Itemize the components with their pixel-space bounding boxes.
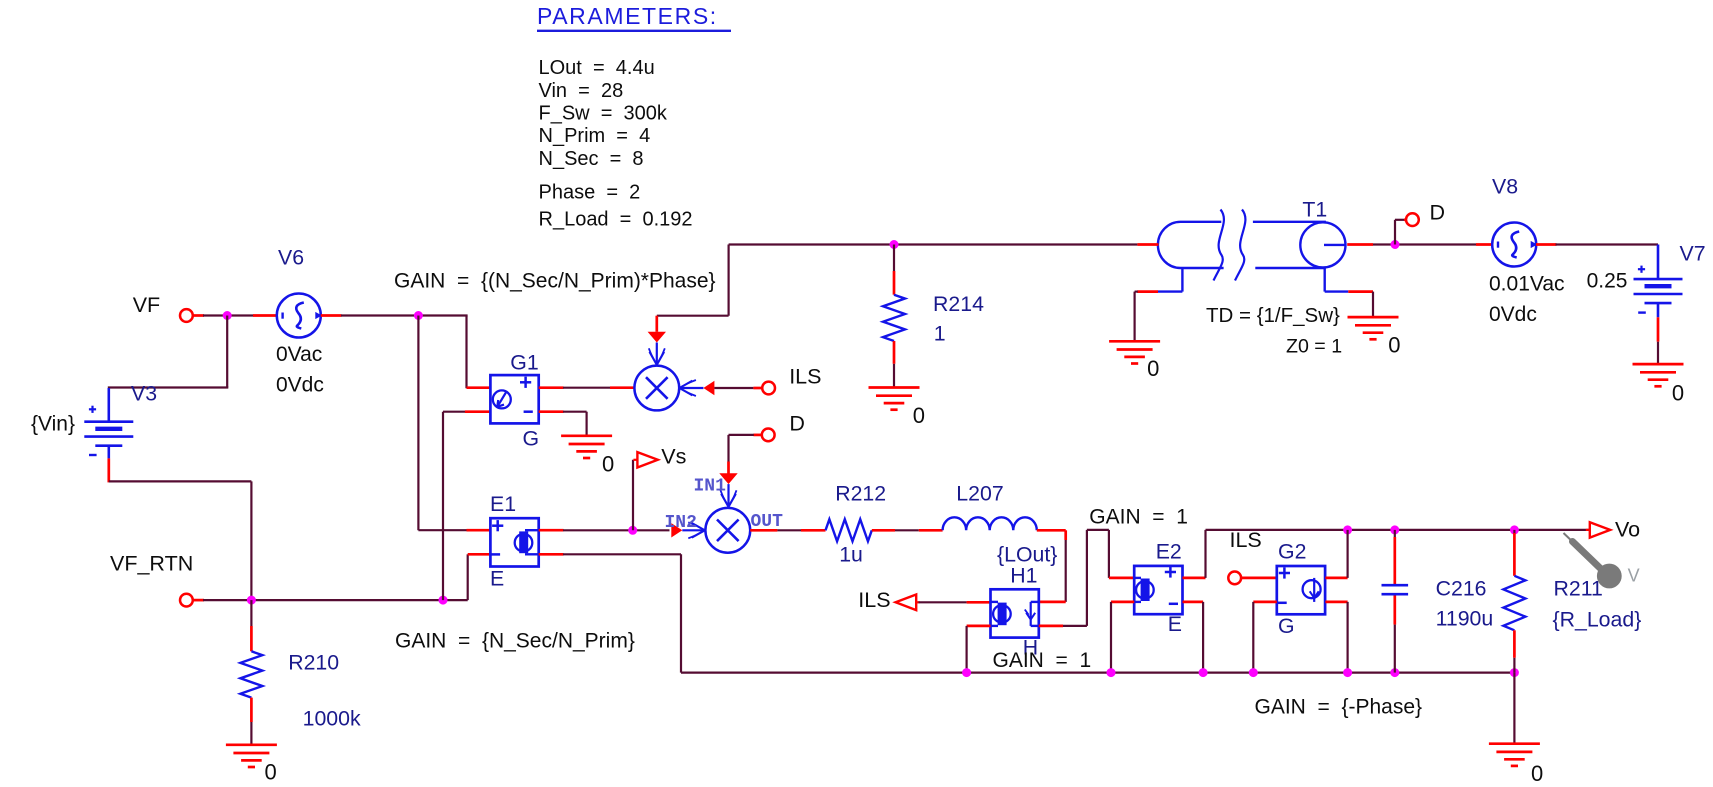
- svg-text:ILS: ILS: [1230, 528, 1262, 552]
- wire E1 minus branch: [467, 554, 469, 600]
- component label R212: [835, 482, 886, 506]
- value label Phase = 2: [539, 181, 641, 203]
- node ILS label (H1): [858, 588, 890, 612]
- wire G2 out+ to rail: [1325, 530, 1347, 578]
- value label Vin = 28: [539, 80, 624, 102]
- wire R210 bottom: [250, 698, 253, 745]
- ground 0 below R211: [1489, 744, 1540, 766]
- value label R_Load = 0.192: [539, 209, 693, 231]
- resistor R210: [240, 651, 262, 697]
- pin label OUT: [751, 512, 784, 532]
- ccvs H1: [991, 589, 1040, 637]
- ground 0 below T1 right: [1348, 317, 1399, 339]
- wire T1 right ground leg: [1348, 292, 1373, 318]
- svg-text:IN1: IN1: [694, 476, 727, 496]
- wire C216 bottom: [1393, 596, 1396, 673]
- pin label E (E1): [490, 567, 504, 591]
- node VF label: [133, 293, 160, 317]
- svg-text:0: 0: [602, 452, 614, 477]
- junction rail-R211: [1510, 525, 1519, 534]
- svg-text:0: 0: [1147, 356, 1159, 381]
- svg-text:1000k: 1000k: [303, 707, 361, 731]
- node Vo label: [1615, 518, 1640, 542]
- wire E2 out- to bus: [1183, 602, 1204, 673]
- component label R211: [1554, 577, 1603, 601]
- svg-text:Vo: Vo: [1615, 518, 1640, 542]
- node D label (top): [1430, 201, 1446, 225]
- component label V7: [1680, 242, 1706, 266]
- wire V8 to V7: [1556, 243, 1659, 245]
- svg-text:V: V: [1628, 566, 1640, 586]
- value label {R_Load}: [1553, 608, 1642, 632]
- svg-text:R210: R210: [288, 651, 339, 675]
- voltage source V8: [1476, 223, 1557, 267]
- svg-text:GAIN = {(N_Sec/N_Prim)*Phase: GAIN = {(N_Sec/N_Prim)*Phase}: [394, 270, 716, 293]
- wire bottom bus: [681, 671, 1514, 673]
- component label E2: [1156, 540, 1182, 564]
- node VF_RTN label: [110, 552, 193, 576]
- node ILS label (top): [789, 364, 821, 388]
- wire ILS port to G2: [1241, 577, 1277, 580]
- wire E1 minus stub: [468, 553, 491, 556]
- vcvs E2: [1134, 566, 1182, 614]
- svg-text:V7: V7: [1680, 242, 1706, 266]
- svg-text:LOut = 4.4u: LOut = 4.4u: [539, 57, 655, 79]
- wire top rail: [729, 243, 1138, 245]
- wire R212 to L207: [872, 529, 943, 532]
- wire C216 top: [1394, 530, 1396, 584]
- resistor R214: [883, 295, 905, 341]
- svg-text:ILS: ILS: [858, 588, 890, 612]
- junction VF-E1 tap: [414, 311, 423, 320]
- port D (top): [1406, 213, 1419, 226]
- svg-text:1: 1: [934, 322, 946, 346]
- svg-text:VF_RTN: VF_RTN: [110, 552, 193, 576]
- svg-text:T1: T1: [1302, 198, 1327, 222]
- pin - mark V3: [89, 454, 97, 456]
- wire H1 left- to bus: [967, 626, 991, 673]
- svg-text:D: D: [1430, 201, 1446, 225]
- svg-text:Z0 = 1: Z0 = 1: [1286, 336, 1342, 358]
- svg-text:E1: E1: [490, 492, 516, 516]
- wire H1 right- gain path: [1039, 530, 1134, 626]
- ground label 0 (R214): [913, 403, 925, 428]
- value label TD = {1/F_Sw}: [1206, 304, 1340, 327]
- junction rail-G2: [1343, 525, 1352, 534]
- wire G1 out+ to multiplier: [539, 386, 635, 389]
- value label Z0 = 1: [1286, 336, 1342, 358]
- voltage source V6: [253, 294, 342, 338]
- svg-text:G: G: [523, 427, 540, 451]
- svg-text:GAIN = {N_Sec/N_Prim}: GAIN = {N_Sec/N_Prim}: [395, 630, 635, 653]
- ground 0 below R214: [869, 388, 920, 410]
- junction rail-R214: [890, 240, 899, 249]
- probe marker V: [1564, 533, 1640, 588]
- battery V7: [1634, 245, 1683, 318]
- wire VF port to junction: [193, 314, 254, 317]
- svg-text:F_Sw = 300k: F_Sw = 300k: [539, 102, 668, 124]
- capacitor C216: [1382, 585, 1409, 594]
- svg-text:{R_Load}: {R_Load}: [1553, 608, 1642, 632]
- junction VF_RTN-G1 tap: [439, 596, 448, 605]
- value label {Vin}: [31, 413, 75, 436]
- component label H1: [1010, 564, 1037, 588]
- svg-text:{Vin}: {Vin}: [31, 413, 75, 436]
- multiplier U-mult2: [705, 508, 750, 553]
- svg-text:0.01Vac: 0.01Vac: [1489, 273, 1565, 296]
- svg-text:0Vac: 0Vac: [276, 343, 322, 366]
- value label GAIN = 1 (E2): [1089, 506, 1188, 529]
- vccs G1: [490, 375, 538, 423]
- component label R214: [933, 292, 984, 316]
- value label 1u: [839, 543, 863, 567]
- svg-text:0: 0: [1672, 381, 1684, 406]
- svg-text:IN2: IN2: [665, 513, 697, 533]
- svg-text:E2: E2: [1156, 540, 1182, 564]
- svg-text:R_Load = 0.192: R_Load = 0.192: [539, 209, 693, 231]
- vccs G2: [1277, 566, 1325, 614]
- svg-text:G2: G2: [1278, 540, 1306, 564]
- svg-text:0: 0: [913, 403, 925, 428]
- value label {LOut}: [997, 543, 1057, 567]
- wire mult1 right input: [679, 380, 762, 396]
- component label E1: [490, 492, 516, 516]
- svg-text:C216: C216: [1436, 577, 1487, 601]
- svg-text:R214: R214: [933, 292, 984, 316]
- value label GAIN top: [394, 270, 716, 293]
- pin + mark V3: [89, 406, 96, 413]
- svg-text:GAIN = 1: GAIN = 1: [993, 649, 1092, 672]
- component label R210: [288, 651, 339, 675]
- junction bus-H1: [962, 668, 971, 677]
- ground 0 below V7: [1633, 364, 1684, 386]
- port VF_RTN: [180, 594, 193, 607]
- svg-text:N_Prim = 4: N_Prim = 4: [539, 125, 651, 147]
- wire V7 to ground: [1657, 317, 1660, 364]
- junction bus-R211: [1510, 668, 1519, 677]
- value label 1000k: [303, 707, 361, 731]
- wire ILS to H1: [919, 601, 991, 603]
- vcvs E1: [490, 518, 538, 566]
- node PARAMETERS heading: [537, 3, 731, 31]
- pin label G (G2): [1278, 614, 1295, 638]
- port ILS (G2): [1228, 572, 1241, 585]
- svg-text:V3: V3: [131, 382, 157, 406]
- value label 1 (R214): [934, 322, 946, 346]
- junction bus-C216: [1390, 668, 1399, 677]
- ground 0 below T1 left: [1109, 341, 1160, 363]
- svg-text:G: G: [1278, 614, 1295, 638]
- value label GAIN E1: [395, 630, 635, 653]
- wire E2 left- to bus: [1111, 602, 1134, 673]
- multiplier U-mult1: [634, 366, 679, 411]
- svg-text:0Vdc: 0Vdc: [276, 374, 324, 397]
- svg-text:V6: V6: [278, 246, 304, 270]
- junction rail-D port: [1391, 240, 1400, 249]
- component label L207: [956, 482, 1003, 506]
- wire bus to ground: [1513, 673, 1515, 744]
- component label G1: [510, 351, 538, 375]
- svg-text:V8: V8: [1492, 175, 1518, 199]
- value label 0.01Vac: [1489, 273, 1565, 296]
- svg-text:GAIN = 1: GAIN = 1: [1089, 506, 1188, 529]
- wire top rail corner branch: [657, 245, 729, 316]
- svg-text:0Vdc: 0Vdc: [1489, 303, 1537, 326]
- svg-text:L207: L207: [956, 482, 1003, 506]
- pin - mark V7: [1638, 311, 1646, 313]
- value label LOut = 4.4u: [539, 57, 655, 79]
- value label N_Prim = 4: [539, 125, 651, 147]
- wire E2 out+ to rail: [1183, 530, 1206, 578]
- svg-text:0: 0: [1388, 333, 1400, 358]
- component label V3: [131, 382, 157, 406]
- wire V3 branch down: [108, 316, 229, 388]
- svg-text:1190u: 1190u: [1436, 607, 1494, 631]
- junction bus-G2 right: [1343, 668, 1352, 677]
- ground label 0 (R210): [265, 760, 277, 785]
- svg-text:TD = {1/F_Sw}: TD = {1/F_Sw}: [1206, 304, 1340, 327]
- flag Vo: [1586, 522, 1610, 537]
- wire VF_RTN bus: [193, 599, 468, 602]
- value label N_Sec = 8: [539, 148, 644, 170]
- svg-text:R211: R211: [1554, 577, 1603, 601]
- component label V8: [1492, 175, 1518, 199]
- port VF: [180, 309, 193, 322]
- svg-text:ILS: ILS: [789, 364, 821, 388]
- wire T1 left ground leg: [1135, 292, 1158, 342]
- svg-text:1u: 1u: [839, 543, 863, 567]
- wire Vs riser: [632, 460, 634, 531]
- wire R210 top: [250, 600, 252, 651]
- battery V3: [84, 388, 133, 458]
- wire G1 minus branch: [443, 412, 466, 600]
- svg-text:G1: G1: [510, 351, 538, 375]
- wire L207 to H1: [1037, 530, 1066, 602]
- wire rail to T1 left pin: [1137, 243, 1158, 246]
- port D (mid): [762, 429, 775, 442]
- wire G1 minus stub: [465, 410, 491, 413]
- svg-text:N_Sec = 8: N_Sec = 8: [539, 148, 644, 170]
- wire VF tap to E1 plus: [418, 316, 490, 531]
- component label G2: [1278, 540, 1306, 564]
- junction bus-E2 left: [1107, 668, 1116, 677]
- wire E1 out- to bottom bus: [539, 554, 681, 672]
- pin label IN1: [694, 476, 727, 496]
- svg-text:D: D: [789, 412, 805, 436]
- wire mult2 IN2 arrow: [671, 522, 705, 538]
- junction Vs tap: [628, 526, 637, 535]
- ground 0 below G1: [561, 436, 612, 458]
- wire V3 minus to VF_RTN: [109, 458, 252, 600]
- junction bus-G2 left: [1249, 668, 1258, 677]
- value label 0.25: [1587, 270, 1628, 293]
- svg-text:GAIN = {-Phase}: GAIN = {-Phase}: [1255, 696, 1423, 719]
- wire R214 top: [893, 245, 895, 295]
- ground 0 below R210: [226, 745, 277, 767]
- node Vs label: [661, 445, 686, 469]
- component label V6: [278, 246, 304, 270]
- wire G2 out- to bus: [1325, 602, 1347, 673]
- flag Vs: [633, 452, 657, 467]
- component label T1: [1302, 198, 1327, 222]
- wire G1 out- to ground: [539, 412, 587, 436]
- arrow ILS output: [896, 595, 920, 611]
- wire R214 bottom: [893, 341, 896, 388]
- wire mult1 top input: [648, 316, 666, 365]
- svg-text:PARAMETERS:: PARAMETERS:: [537, 3, 718, 29]
- junction rail-C216: [1390, 525, 1399, 534]
- value label GAIN = {-Phase}: [1255, 696, 1423, 719]
- wire T1 to D junction: [1347, 243, 1476, 246]
- ground label 0 (G1): [602, 452, 614, 477]
- wire mult2 OUT to R212: [750, 529, 825, 532]
- svg-text:0: 0: [265, 760, 277, 785]
- svg-text:R212: R212: [835, 482, 886, 506]
- svg-text:Vs: Vs: [661, 445, 686, 469]
- svg-text:0: 0: [1531, 761, 1543, 786]
- svg-text:E: E: [490, 567, 504, 591]
- value label F_Sw = 300k: [539, 102, 668, 124]
- wire output rail Vo: [1206, 529, 1590, 531]
- ground label 0 (V7): [1672, 381, 1684, 406]
- svg-text:Vin = 28: Vin = 28: [539, 80, 624, 102]
- value label 0Vdc (V8): [1489, 303, 1537, 326]
- value label GAIN = 1 (H1): [993, 649, 1092, 672]
- ground label 0 (T1 left): [1147, 356, 1159, 381]
- svg-text:Phase = 2: Phase = 2: [539, 181, 641, 203]
- port ILS (top): [762, 382, 775, 395]
- pin label G (G1): [523, 427, 540, 451]
- wire G2 left- to bus: [1253, 602, 1277, 673]
- ground label 0 (R211): [1531, 761, 1543, 786]
- node ILS label (G2): [1230, 528, 1262, 552]
- transmission line T1: [1158, 210, 1349, 292]
- junction VF-V3 tap: [223, 311, 232, 320]
- junction VF_RTN-R210: [247, 596, 256, 605]
- svg-text:OUT: OUT: [751, 512, 784, 532]
- value label 1190u: [1436, 607, 1494, 631]
- pin label H (H1): [1023, 636, 1038, 660]
- wire R211 bottom: [1513, 630, 1516, 672]
- wire D port riser: [1395, 220, 1406, 245]
- resistor R211: [1503, 576, 1525, 631]
- inductor L207: [943, 517, 1037, 530]
- wire V6 to G1 corner: [341, 314, 468, 316]
- ground label 0 (T1 right): [1388, 333, 1400, 358]
- resistor R212: [826, 519, 872, 541]
- svg-text:VF: VF: [133, 293, 160, 317]
- wire VF corner to G1 plus: [467, 316, 491, 389]
- svg-text:E: E: [1168, 612, 1182, 636]
- pin label E (E2): [1168, 612, 1182, 636]
- pin label IN2: [665, 513, 697, 533]
- wire E1 out+ to mult2: [539, 529, 670, 532]
- wire R211 top: [1513, 530, 1515, 576]
- pin + mark V7: [1638, 266, 1645, 273]
- node D label (mid): [789, 412, 805, 436]
- value label 0Vdc (V6): [276, 374, 324, 397]
- svg-text:H1: H1: [1010, 564, 1037, 588]
- value label 0Vac (V6): [276, 343, 322, 366]
- component label C216: [1436, 577, 1487, 601]
- svg-text:0.25: 0.25: [1587, 270, 1628, 293]
- junction bus-E2 right: [1199, 668, 1208, 677]
- wire D to mult2 IN1: [719, 435, 762, 507]
